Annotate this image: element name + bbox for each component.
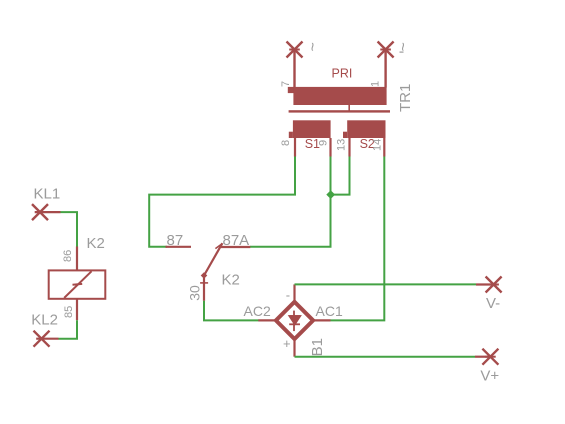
svg-text:K2: K2 bbox=[222, 271, 240, 288]
svg-text:+: + bbox=[283, 336, 291, 351]
svg-text:~: ~ bbox=[305, 42, 322, 51]
wire KL1 to coil pin 86 bbox=[61, 212, 78, 246]
svg-text:85: 85 bbox=[63, 306, 75, 318]
stub V- bbox=[476, 283, 494, 285]
svg-text:AC1: AC1 bbox=[316, 303, 343, 319]
wire contact 30 to bridge AC2 bbox=[204, 301, 259, 321]
terminal X top-right (mains) bbox=[378, 42, 394, 58]
terminal KL2 bbox=[34, 331, 59, 347]
terminal V- bbox=[486, 277, 502, 293]
pin 14 of S2 bbox=[383, 138, 385, 157]
wire coil pin 85 to KL2 bbox=[59, 320, 78, 339]
label ~ right bbox=[396, 42, 413, 53]
svg-text:7: 7 bbox=[280, 81, 292, 87]
contact arm K2 bbox=[201, 243, 223, 279]
terminal KL1 bbox=[32, 204, 61, 220]
bridge pin AC2 bbox=[258, 319, 276, 321]
wire bridge minus to V- bbox=[295, 283, 477, 285]
pin 86 bbox=[76, 247, 78, 271]
svg-text:AC2: AC2 bbox=[244, 303, 271, 319]
wire junction to contact 87A bbox=[250, 195, 331, 247]
svg-text:8: 8 bbox=[280, 140, 292, 146]
svg-text:B1: B1 bbox=[309, 338, 326, 356]
stub V+ bbox=[475, 356, 490, 358]
pin 8 of S1 bbox=[294, 138, 296, 157]
terminal X top-left (mains) bbox=[287, 42, 303, 58]
relay coil K2 bbox=[49, 270, 106, 298]
wire S2 pin 14 to bridge AC1 bbox=[330, 157, 384, 321]
svg-text:V-: V- bbox=[486, 295, 500, 312]
svg-text:13: 13 bbox=[336, 139, 348, 151]
pin 13 of S2 bbox=[348, 138, 350, 157]
wire S2 pin 13 to junction bbox=[331, 157, 350, 195]
svg-text:PRI: PRI bbox=[332, 67, 353, 81]
pin 9 of S1 bbox=[329, 138, 331, 157]
wire bridge plus to V+ bbox=[295, 356, 476, 358]
svg-text:~: ~ bbox=[396, 42, 413, 51]
svg-text:-: - bbox=[286, 288, 290, 303]
svg-text:KL1: KL1 bbox=[34, 186, 61, 203]
terminal V+ bbox=[482, 349, 498, 365]
svg-text:TR1: TR1 bbox=[397, 84, 414, 112]
wire S1 pin 8 to contact 87 bbox=[149, 157, 295, 247]
junction node bbox=[326, 190, 335, 199]
svg-text:K2: K2 bbox=[87, 235, 105, 252]
bridge diode symbol bbox=[289, 311, 300, 332]
svg-text:V+: V+ bbox=[480, 368, 499, 385]
svg-text:14: 14 bbox=[371, 139, 383, 151]
bridge pin AC1 bbox=[313, 319, 331, 321]
svg-text:9: 9 bbox=[318, 140, 330, 146]
transformer secondary winding S2 bbox=[343, 120, 386, 138]
contact pin 87 bbox=[166, 246, 192, 248]
transformer core bbox=[289, 110, 390, 112]
transformer TR1 primary winding bbox=[288, 87, 387, 111]
wire S1 pin 9 to junction bbox=[330, 157, 332, 195]
transformer secondary winding S1 bbox=[289, 120, 331, 138]
svg-text:86: 86 bbox=[62, 250, 74, 262]
contact pin 87A bbox=[221, 246, 251, 248]
pin 85 bbox=[76, 299, 78, 320]
bridge pin plus bbox=[293, 339, 295, 357]
svg-text:KL2: KL2 bbox=[31, 312, 58, 329]
wire mains right to PRI pin 1 bbox=[384, 50, 386, 88]
bridge rectifier B1 body bbox=[276, 302, 313, 339]
contact pin 30 bbox=[200, 277, 208, 301]
bridge pin minus bbox=[293, 284, 295, 302]
svg-text:1: 1 bbox=[370, 81, 382, 87]
svg-text:30: 30 bbox=[187, 285, 203, 301]
wire mains left to PRI pin 7 bbox=[293, 50, 295, 88]
